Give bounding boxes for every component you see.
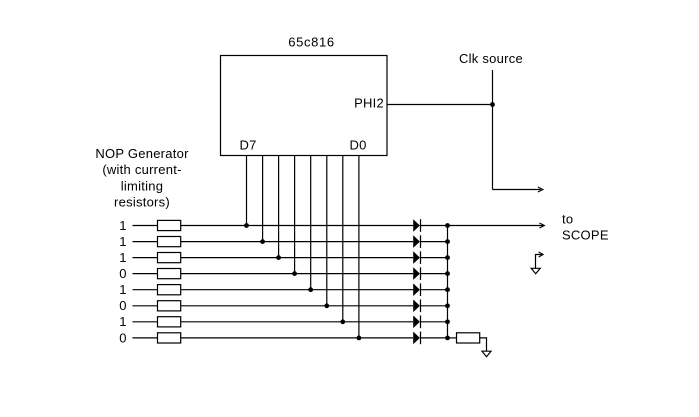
svg-text:1: 1	[119, 314, 126, 329]
svg-text:D7: D7	[239, 138, 256, 153]
svg-text:1: 1	[119, 218, 126, 233]
svg-text:(with current-: (with current-	[102, 162, 181, 177]
svg-text:resistors): resistors)	[114, 195, 170, 210]
svg-text:0: 0	[119, 330, 126, 345]
svg-text:limiting: limiting	[121, 178, 163, 193]
svg-text:to: to	[562, 212, 573, 227]
svg-text:1: 1	[119, 282, 126, 297]
svg-text:65c816: 65c816	[288, 35, 335, 50]
svg-text:NOP Generator: NOP Generator	[95, 146, 189, 161]
svg-text:1: 1	[119, 234, 126, 249]
svg-text:SCOPE: SCOPE	[562, 228, 609, 243]
svg-text:Clk source: Clk source	[459, 51, 523, 66]
svg-text:PHI2: PHI2	[354, 96, 384, 111]
svg-text:D0: D0	[349, 138, 366, 153]
svg-text:0: 0	[119, 266, 126, 281]
svg-text:1: 1	[119, 250, 126, 265]
svg-text:0: 0	[119, 298, 126, 313]
